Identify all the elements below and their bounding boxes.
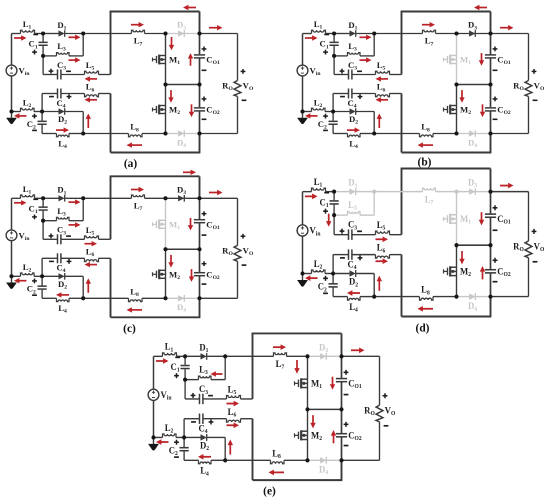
svg-text:(c): (c) bbox=[123, 323, 136, 335]
svg-text:(e): (e) bbox=[263, 484, 276, 497]
svg-text:(d): (d) bbox=[416, 321, 430, 334]
svg-text:(b): (b) bbox=[418, 157, 432, 169]
svg-text:(a): (a) bbox=[124, 158, 137, 170]
